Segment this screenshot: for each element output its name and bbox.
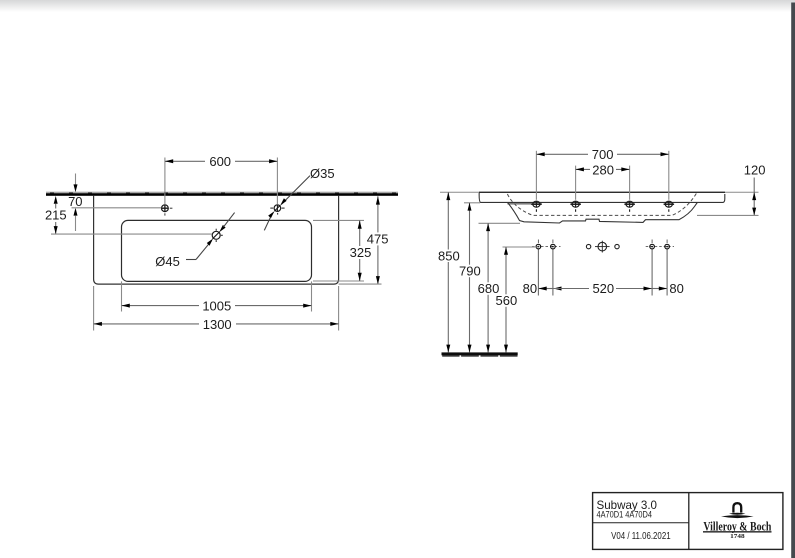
V&B logo arch xyxy=(733,503,741,512)
dim 790 xyxy=(459,203,481,353)
drain hole Ø45 xyxy=(212,229,223,242)
dim 850 xyxy=(438,192,460,352)
basin inner bowl rounded rect xyxy=(122,220,312,281)
dim 700 xyxy=(536,147,668,200)
svg-text:560: 560 xyxy=(496,293,518,308)
svg-text:700: 700 xyxy=(592,147,614,162)
svg-text:V04 / 11.06.2021: V04 / 11.06.2021 xyxy=(611,531,671,542)
dim 325 xyxy=(313,220,372,281)
label Ø45 with leader xyxy=(155,213,234,269)
title block frame xyxy=(593,493,783,550)
mounting hole pair right xyxy=(646,240,674,249)
basin outer outline xyxy=(94,196,339,284)
bowl inner back edge line xyxy=(508,203,542,205)
dim 120 xyxy=(697,162,765,215)
svg-text:4A70D1 4A70D4: 4A70D1 4A70D4 xyxy=(597,510,653,520)
wall hatch dashes xyxy=(50,193,396,194)
basin lower body outline xyxy=(508,202,698,223)
dim 280 xyxy=(576,162,630,200)
svg-text:80: 80 xyxy=(669,281,683,296)
horizontal divider xyxy=(593,522,689,524)
svg-text:520: 520 xyxy=(592,281,614,296)
top surface extension line xyxy=(440,191,759,193)
basin outline front xyxy=(479,193,725,203)
basin deck top edge xyxy=(479,191,725,193)
dim 475 xyxy=(339,196,390,284)
svg-text:600: 600 xyxy=(209,154,231,169)
mounting hole pair left xyxy=(532,240,561,249)
dim 80 left xyxy=(523,250,562,297)
faucet hole right xyxy=(270,158,284,215)
dim 80 right xyxy=(652,250,684,297)
svg-text:1748: 1748 xyxy=(730,533,745,540)
hidden bowl dashed contour xyxy=(507,193,697,216)
dim 560 xyxy=(495,247,538,352)
svg-text:80: 80 xyxy=(523,281,537,296)
tap hole symbols on deck xyxy=(531,201,674,212)
svg-text:120: 120 xyxy=(744,162,766,177)
svg-text:325: 325 xyxy=(350,245,372,260)
V&B logo dishes xyxy=(729,513,746,515)
vertical divider xyxy=(688,493,690,550)
svg-text:1300: 1300 xyxy=(203,317,232,332)
wall surface thin line xyxy=(46,191,398,193)
dim 520 xyxy=(553,281,652,296)
svg-text:475: 475 xyxy=(367,231,389,246)
faucet hole left xyxy=(161,158,172,216)
svg-text:Villeroy & Boch: Villeroy & Boch xyxy=(703,518,772,533)
wall thick line xyxy=(46,193,398,196)
dim 1300 xyxy=(94,286,339,332)
svg-text:850: 850 xyxy=(438,248,460,263)
label Ø35 with leader xyxy=(264,166,334,230)
svg-text:70: 70 xyxy=(68,194,82,209)
svg-text:790: 790 xyxy=(459,264,481,279)
svg-text:Ø45: Ø45 xyxy=(155,254,180,269)
svg-text:280: 280 xyxy=(592,162,614,177)
dim 1005 xyxy=(122,281,312,313)
right edge dark bar xyxy=(791,3,795,558)
dim 680 xyxy=(477,223,520,352)
svg-text:Ø35: Ø35 xyxy=(310,166,335,181)
center drain trio xyxy=(586,241,619,253)
svg-text:1005: 1005 xyxy=(202,299,231,314)
dim 600 xyxy=(165,154,278,169)
dim 70 xyxy=(68,174,161,232)
ground hatch bar xyxy=(442,352,518,355)
dim 215 xyxy=(45,196,212,234)
svg-text:215: 215 xyxy=(45,208,67,223)
